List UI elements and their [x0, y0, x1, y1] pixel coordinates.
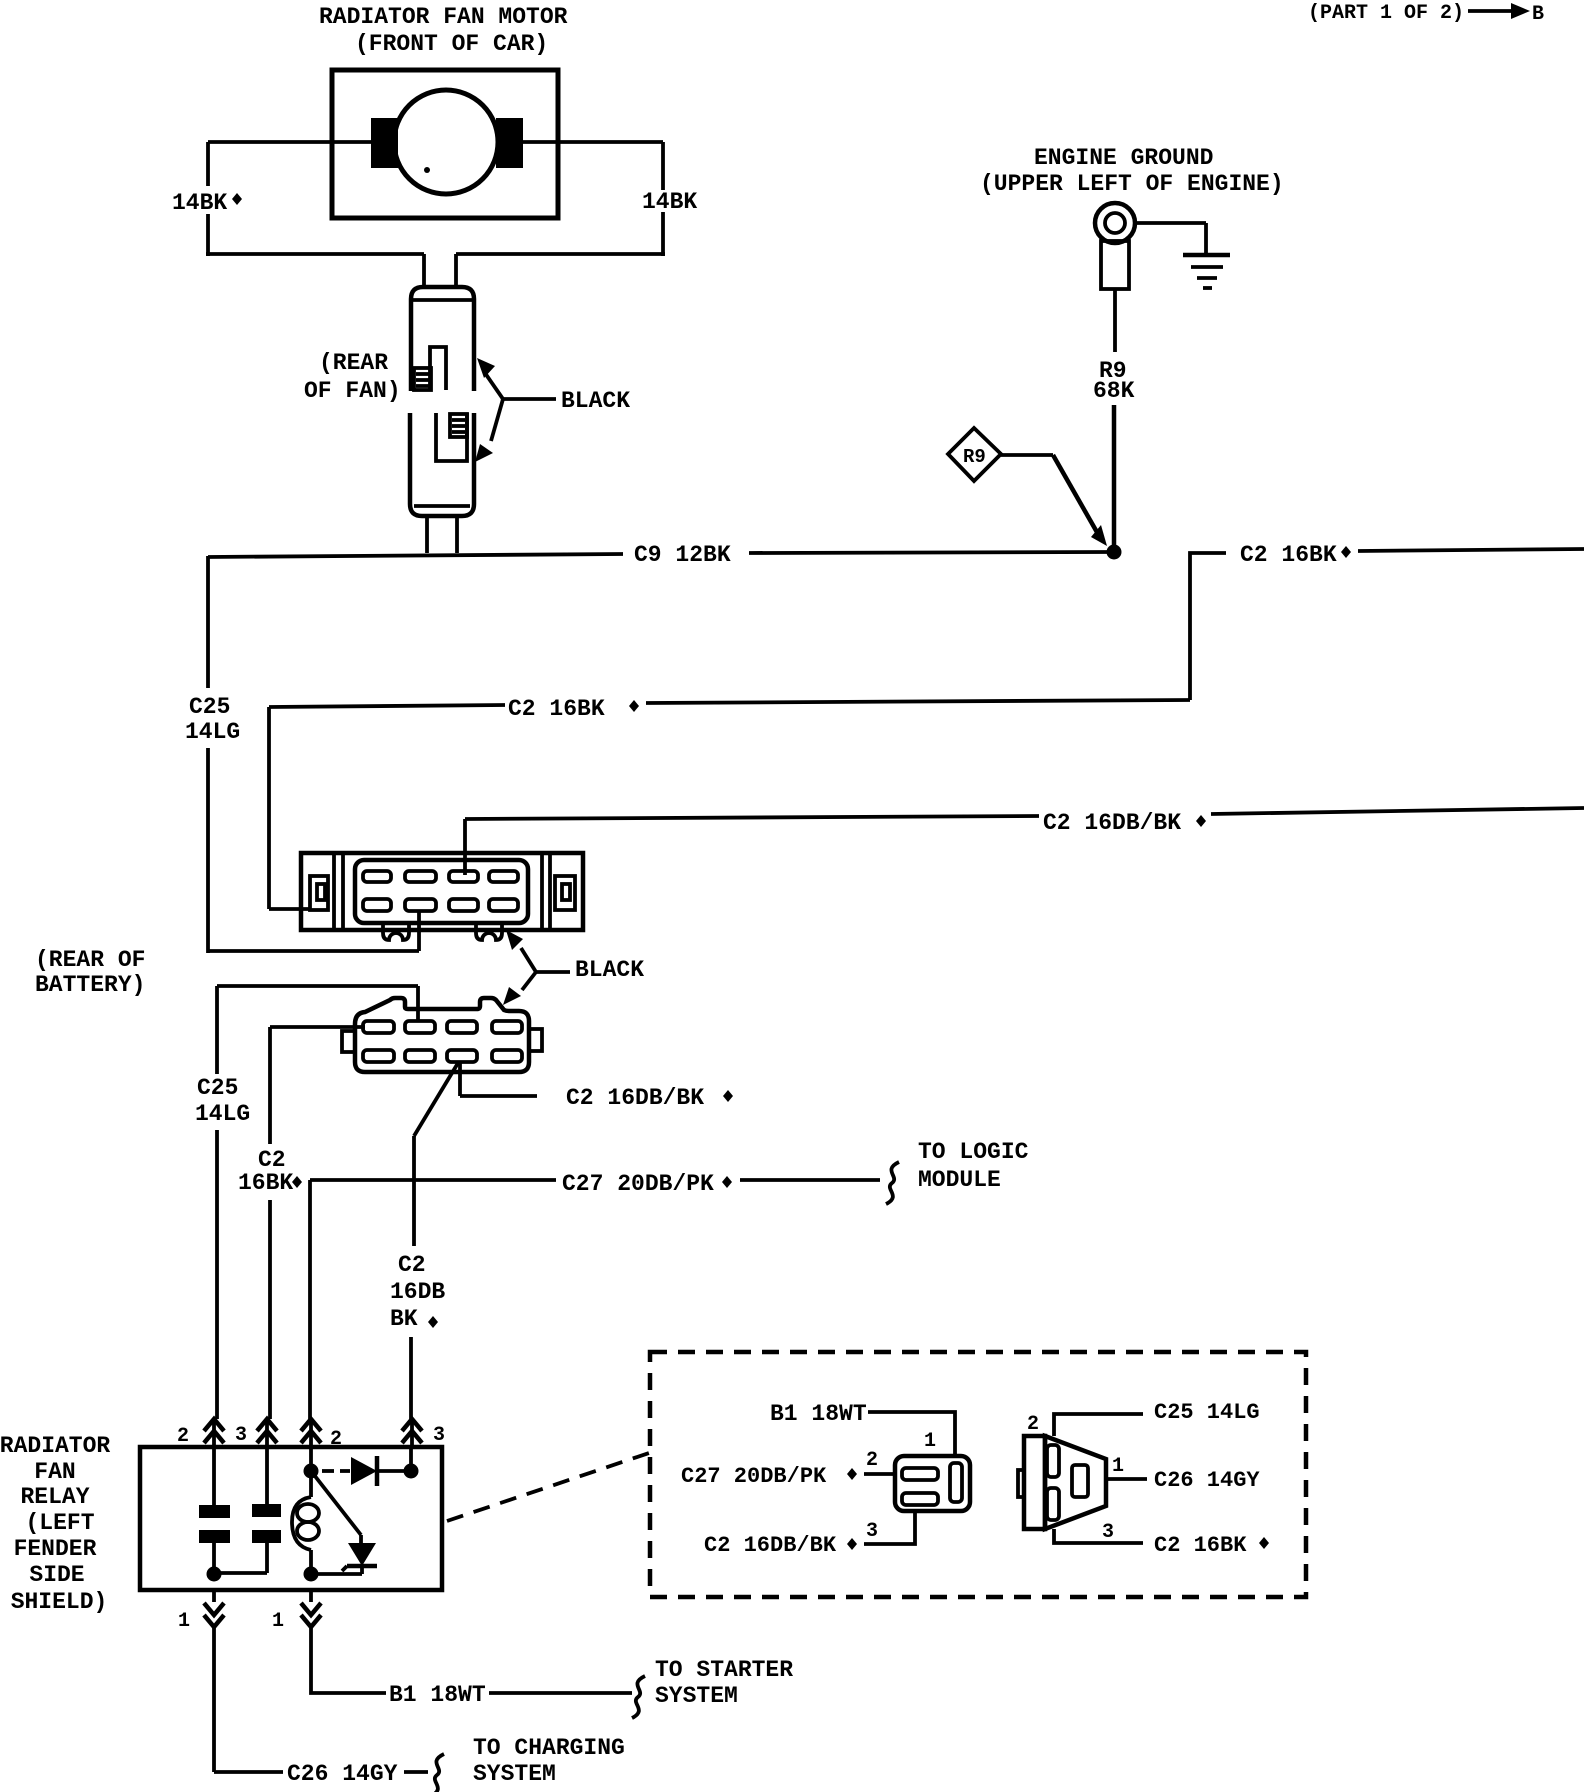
- svg-text:C25: C25: [197, 1075, 238, 1101]
- svg-text:(PART 1 OF 2): (PART 1 OF 2): [1308, 2, 1464, 25]
- svg-text:C9 12BK: C9 12BK: [634, 542, 731, 568]
- svg-text:RADIATOR FAN MOTOR: RADIATOR FAN MOTOR: [319, 4, 568, 30]
- svg-text:C26 14GY: C26 14GY: [1154, 1468, 1260, 1493]
- svg-text:C2 16BK: C2 16BK: [508, 696, 605, 722]
- svg-text:(FRONT OF CAR): (FRONT OF CAR): [355, 31, 548, 57]
- svg-text:(REAR OF: (REAR OF: [35, 947, 145, 973]
- svg-text:C25 14LG: C25 14LG: [1154, 1400, 1260, 1425]
- svg-text:3: 3: [1102, 1521, 1114, 1544]
- svg-text:1: 1: [1112, 1455, 1124, 1478]
- svg-text:C26 14GY: C26 14GY: [287, 1761, 398, 1787]
- svg-text:C27 20DB/PK: C27 20DB/PK: [562, 1171, 714, 1197]
- svg-text:BATTERY): BATTERY): [35, 972, 145, 998]
- svg-text:(REAR: (REAR: [319, 350, 388, 376]
- svg-text:TO STARTER: TO STARTER: [655, 1657, 793, 1683]
- svg-text:14LG: 14LG: [195, 1101, 250, 1127]
- svg-text:B1 18WT: B1 18WT: [770, 1401, 867, 1427]
- svg-text:1: 1: [272, 1610, 284, 1633]
- svg-text:TO CHARGING: TO CHARGING: [473, 1735, 625, 1761]
- svg-text:2: 2: [177, 1425, 189, 1448]
- svg-text:3: 3: [866, 1520, 878, 1543]
- svg-text:16BK: 16BK: [238, 1170, 293, 1196]
- svg-text:C2 16DB/BK: C2 16DB/BK: [1043, 810, 1181, 836]
- svg-text:BLACK: BLACK: [575, 957, 644, 983]
- svg-text:BLACK: BLACK: [561, 388, 630, 414]
- svg-text:RADIATOR: RADIATOR: [0, 1433, 110, 1459]
- svg-text:14LG: 14LG: [185, 719, 240, 745]
- svg-text:BK: BK: [390, 1306, 418, 1332]
- svg-text:B1 18WT: B1 18WT: [389, 1682, 486, 1708]
- svg-text:C2 16BK: C2 16BK: [1154, 1533, 1247, 1558]
- svg-text:(UPPER LEFT OF ENGINE): (UPPER LEFT OF ENGINE): [980, 171, 1284, 197]
- svg-text:C2: C2: [398, 1252, 426, 1278]
- svg-text:2: 2: [866, 1449, 878, 1472]
- svg-text:OF FAN): OF FAN): [304, 378, 401, 404]
- svg-text:MODULE: MODULE: [918, 1167, 1001, 1193]
- svg-text:2: 2: [330, 1428, 342, 1451]
- svg-text:RELAY: RELAY: [20, 1484, 89, 1510]
- svg-text:SYSTEM: SYSTEM: [655, 1683, 738, 1709]
- svg-text:TO LOGIC: TO LOGIC: [918, 1139, 1029, 1165]
- svg-text:C2 16DB/BK: C2 16DB/BK: [704, 1533, 837, 1558]
- svg-text:SIDE: SIDE: [29, 1562, 84, 1588]
- svg-text:SHIELD): SHIELD): [11, 1589, 108, 1615]
- svg-text:C25: C25: [189, 694, 230, 720]
- svg-text:2: 2: [1027, 1413, 1039, 1436]
- svg-text:FAN: FAN: [34, 1459, 75, 1485]
- svg-text:1: 1: [178, 1610, 190, 1633]
- svg-text:C2 16DB/BK: C2 16DB/BK: [566, 1085, 704, 1111]
- svg-text:B: B: [1532, 3, 1544, 26]
- svg-text:ENGINE GROUND: ENGINE GROUND: [1034, 145, 1213, 171]
- svg-text:C27 20DB/PK: C27 20DB/PK: [681, 1464, 827, 1489]
- svg-text:3: 3: [433, 1424, 445, 1447]
- svg-text:1: 1: [924, 1430, 936, 1453]
- svg-text:C2 16BK: C2 16BK: [1240, 542, 1337, 568]
- svg-text:14BK: 14BK: [642, 189, 697, 215]
- svg-text:SYSTEM: SYSTEM: [473, 1761, 556, 1787]
- svg-text:(LEFT: (LEFT: [25, 1510, 94, 1536]
- svg-text:16DB: 16DB: [390, 1279, 445, 1305]
- svg-text:14BK: 14BK: [172, 190, 227, 216]
- svg-text:R9: R9: [963, 446, 986, 468]
- svg-text:FENDER: FENDER: [14, 1536, 97, 1562]
- svg-text:68K: 68K: [1093, 378, 1135, 404]
- svg-text:3: 3: [235, 1424, 247, 1447]
